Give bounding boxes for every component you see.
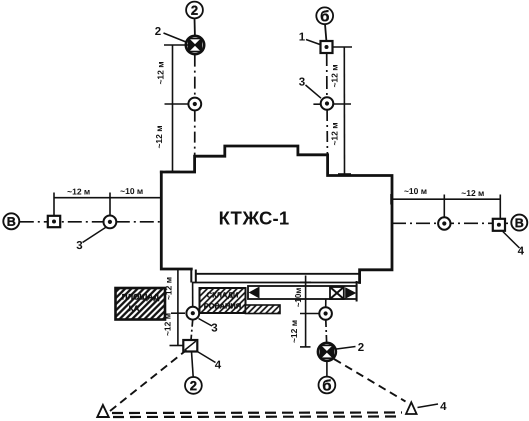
leader to P5 <box>199 319 213 327</box>
dimension line bottom-left column <box>177 269 179 346</box>
svg-text:~12 м: ~12 м <box>154 125 164 148</box>
axis6 dash-dot to M2 <box>325 320 328 342</box>
axis6 dash-dot lower <box>326 110 328 155</box>
hatched area СКЛАДИРОВАНИЯ <box>200 288 246 313</box>
bar right arrow <box>345 287 356 298</box>
bar right end tick <box>356 281 358 302</box>
svg-text:СКЛАДИ: СКЛАДИ <box>207 290 239 299</box>
reference point circle-dot P4 <box>438 217 450 229</box>
axis2 dash-dot lower <box>194 111 196 156</box>
svg-text:~12 м: ~12 м <box>163 313 173 336</box>
tick-connector at P6 level <box>300 313 319 315</box>
svg-text:~10 м: ~10 м <box>404 186 427 196</box>
svg-text:3: 3 <box>211 322 217 334</box>
reference point circle-dot P1 <box>188 98 201 111</box>
hatched strip <box>246 305 281 314</box>
tick at building top right <box>338 173 351 175</box>
geodetic marker M1 (circle-square left/right filled) <box>186 36 204 54</box>
leader to right triangle <box>418 404 439 408</box>
tick-connector at S2 <box>53 193 55 216</box>
svg-text:В: В <box>515 216 524 230</box>
building outline КТЖС-1 <box>161 146 392 283</box>
svg-text:3: 3 <box>76 240 82 252</box>
dimension line top-right horizontal <box>391 198 500 200</box>
leader to S4 <box>197 352 215 363</box>
svg-text:~12 м: ~12 м <box>461 188 484 198</box>
wall point square S3 <box>493 219 505 231</box>
dimension line left column <box>172 45 174 172</box>
tick at canopy level <box>300 281 311 283</box>
svg-text:КА: КА <box>129 304 140 313</box>
reference point circle-dot P5 <box>186 307 199 320</box>
baseline dashed row 1 <box>112 411 402 414</box>
svg-text:2: 2 <box>190 378 197 393</box>
axis circle б bottom <box>319 377 336 395</box>
bar crossed box <box>330 287 344 299</box>
svg-text:4: 4 <box>215 359 222 371</box>
svg-text:РОВАНИЯ: РОВАНИЯ <box>204 301 241 310</box>
svg-text:2: 2 <box>358 342 364 354</box>
axis circle 2 top <box>186 2 203 19</box>
svg-text:ПЛОЩАД: ПЛОЩАД <box>122 292 160 301</box>
baseline dashed row 2 <box>113 415 396 418</box>
survey station triangle left <box>97 405 108 417</box>
wire axis6 top <box>325 24 326 41</box>
crane rail bar <box>248 281 357 302</box>
wire axis2 top <box>194 18 196 36</box>
reference point circle-dot P6 <box>319 307 332 320</box>
svg-text:~12 м: ~12 м <box>330 64 340 87</box>
svg-text:~12 м: ~12 м <box>164 277 174 300</box>
notch left vertical <box>190 269 192 283</box>
hatched area ПЛОЩАДКА <box>116 288 166 320</box>
axis circle б top <box>316 7 333 25</box>
leader to P2 <box>306 85 322 98</box>
tick at building left edge <box>161 193 163 204</box>
tick-connector at S3 <box>499 195 501 219</box>
leader to S1 <box>306 40 320 45</box>
axis circle В left <box>3 213 19 229</box>
svg-text:2: 2 <box>191 3 198 18</box>
axis2 dash-dot to S4 <box>191 320 193 340</box>
tick stub left of P2 <box>313 103 320 105</box>
axis circle В right <box>511 215 527 231</box>
wire M2 to circle б bottom <box>326 361 328 377</box>
canopy line <box>192 282 360 284</box>
tick at S1 level <box>333 46 352 48</box>
axis6 dash-dot upper <box>326 53 328 97</box>
reference point circle-dot P2 <box>321 97 334 110</box>
axis circle 2 bottom <box>185 377 202 394</box>
tick-connector at P4 <box>443 195 445 218</box>
survey station triangle right <box>406 402 417 414</box>
svg-text:3: 3 <box>299 76 305 88</box>
geodetic marker M2 (circle-square left/right filled) <box>318 343 336 361</box>
tick at M1 level <box>164 44 190 46</box>
tick at building right edge <box>390 194 392 205</box>
leader to M2 <box>337 347 356 350</box>
axis В horizontal dash-dot right <box>392 222 511 224</box>
axis В horizontal dash-dot left <box>20 221 161 223</box>
svg-text:~12 м: ~12 м <box>156 61 166 84</box>
svg-text:КТЖС-1: КТЖС-1 <box>219 208 290 229</box>
axis2 dash-dot upper <box>194 55 196 97</box>
dimension line bottom-right column <box>305 276 307 348</box>
wall point square S1 <box>321 41 333 53</box>
dimension line right column <box>343 47 345 175</box>
axis6 below building solid <box>325 299 327 308</box>
sight line dashed right diagonal <box>334 359 406 402</box>
tick at P2 level <box>334 103 351 105</box>
reference point circle-dot P3 <box>104 216 117 229</box>
notch right vertical <box>195 270 197 283</box>
svg-text:4: 4 <box>440 401 447 413</box>
leader to P3 <box>83 228 106 243</box>
tick-connector at P3 <box>109 193 111 216</box>
leader to S3 <box>503 232 520 249</box>
tick at building top <box>166 171 181 173</box>
svg-text:б: б <box>320 8 329 25</box>
svg-text:2: 2 <box>155 26 161 38</box>
wall point square S2 <box>48 216 60 227</box>
svg-text:~12 м: ~12 м <box>289 320 299 343</box>
svg-text:~10м: ~10м <box>294 288 303 308</box>
svg-text:~12 м: ~12 м <box>330 122 340 145</box>
svg-text:1: 1 <box>299 31 306 43</box>
axis2 below building solid <box>192 283 194 307</box>
tick at M2 level <box>300 346 311 348</box>
sight line dashed left diagonal <box>110 350 187 411</box>
bar left arrow <box>249 287 260 299</box>
lower wall line <box>196 273 360 275</box>
wall point square S4 with diagonal <box>183 340 197 352</box>
tick at P1 level <box>165 103 189 105</box>
dimension line top-left horizontal <box>54 197 162 199</box>
svg-text:В: В <box>7 215 16 229</box>
wire S4 to circle 2 bottom <box>192 352 194 378</box>
tick at S4 level <box>170 345 184 347</box>
leader to M1 <box>164 33 187 42</box>
tick at building bottom <box>171 268 185 270</box>
svg-text:б: б <box>322 377 331 394</box>
svg-text:~12 м: ~12 м <box>67 186 90 196</box>
tick at P5 level <box>171 312 185 314</box>
svg-text:~10 м: ~10 м <box>120 186 143 196</box>
